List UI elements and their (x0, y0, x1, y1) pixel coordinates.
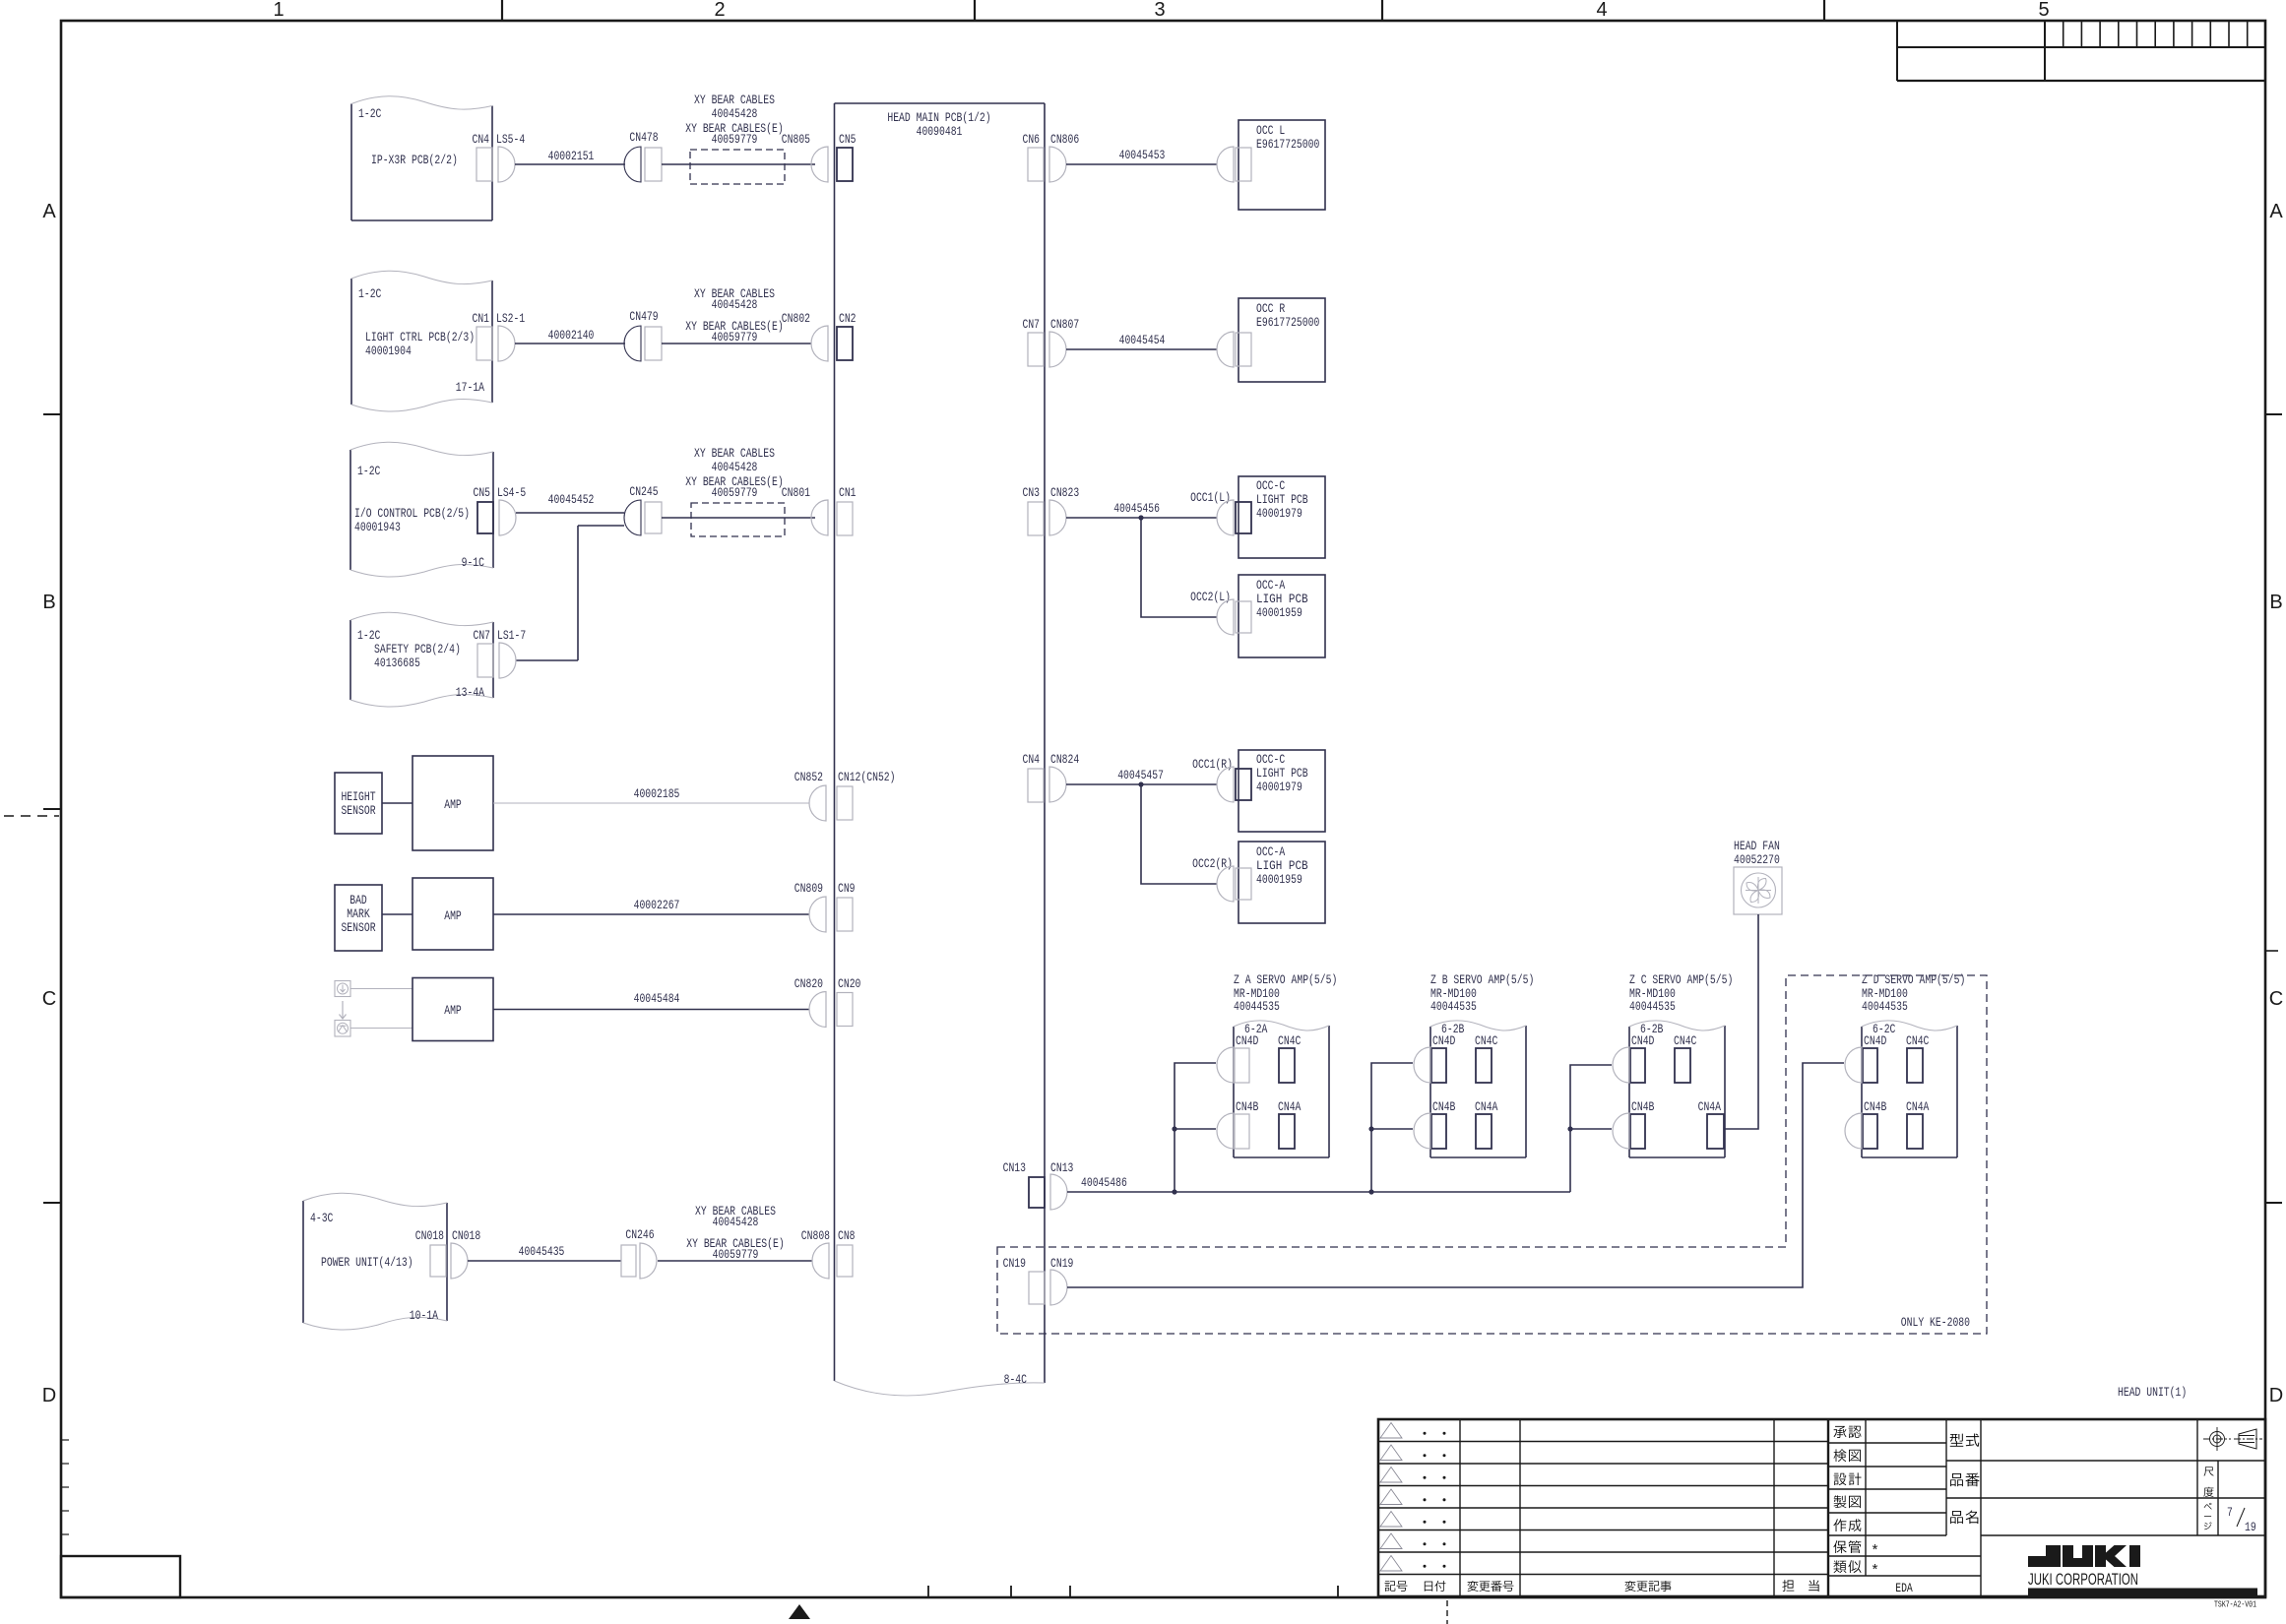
connector CN805 (782, 132, 828, 182)
dashed region ONLY KE-2080 (997, 975, 1987, 1334)
wire 40045452 (516, 492, 624, 513)
svg-text:E9617725000: E9617725000 (1256, 137, 1319, 152)
svg-text:CN807: CN807 (1050, 317, 1079, 332)
connector LS1-7 (497, 628, 526, 678)
svg-text:CN802: CN802 (782, 311, 810, 326)
svg-text:40001904: 40001904 (365, 344, 412, 358)
OCC2(L) connector (1190, 590, 1234, 635)
svg-text:40002151: 40002151 (548, 149, 595, 163)
wire HEAD FAN to Z C CN4A (1724, 914, 1758, 1129)
connector CN807 (1049, 317, 1079, 367)
svg-text:JUKI CORPORATION: JUKI CORPORATION (2028, 1571, 2138, 1589)
svg-text:CN824: CN824 (1050, 752, 1079, 767)
svg-text:CN4C: CN4C (1906, 1033, 1930, 1048)
wire to CN805 (662, 163, 815, 165)
svg-text:4: 4 (1596, 0, 1607, 21)
HEAD MAIN PCB(1/2) block (835, 103, 1046, 1396)
row divider ticks on left border (43, 414, 61, 1203)
cable XY BEAR CABLES 40045428 / (E) 40059779 labels row1 (685, 93, 783, 147)
JUKI logo (2028, 1545, 2257, 1598)
svg-text:40045453: 40045453 (1119, 148, 1166, 162)
wire 40045454 (1066, 333, 1217, 349)
svg-text:5: 5 (2038, 0, 2049, 21)
svg-text:1-2C: 1-2C (358, 286, 382, 301)
svg-text:40045456: 40045456 (1113, 501, 1160, 516)
revision header row kanji (1385, 1580, 1819, 1592)
svg-text:40001979: 40001979 (1256, 780, 1302, 794)
wire 40002267 (493, 898, 809, 914)
connector CN246 (621, 1227, 657, 1279)
svg-text:CN13: CN13 (1003, 1160, 1026, 1175)
svg-text:40059779: 40059779 (713, 1247, 759, 1262)
connector CN852 (794, 770, 826, 821)
stub to Z C CN4B (1570, 1128, 1612, 1130)
svg-text:2: 2 (714, 0, 725, 21)
svg-text:LS5-4: LS5-4 (496, 132, 525, 147)
connector CN802 (782, 311, 828, 361)
connector CN1 on LIGHT CTRL (473, 311, 493, 360)
svg-text:CN4B: CN4B (1864, 1099, 1887, 1114)
connector CN809 (794, 881, 826, 932)
svg-text:CN9: CN9 (838, 881, 856, 896)
connector CN018 plug (451, 1228, 480, 1279)
svg-text:CN4B: CN4B (1432, 1099, 1456, 1114)
svg-text:40002140: 40002140 (548, 328, 595, 343)
connector LS2-1 (496, 311, 525, 361)
svg-text:Z C SERVO AMP(5/5): Z C SERVO AMP(5/5) (1629, 972, 1733, 987)
connector CN4D on Z A (1235, 1033, 1259, 1083)
BAD MARK SENSOR box (335, 885, 382, 951)
svg-text:CN4A: CN4A (1475, 1099, 1498, 1114)
connector CN4B on Z B (1431, 1099, 1456, 1149)
svg-text:OCC R: OCC R (1256, 301, 1285, 316)
connector CN823 (1049, 485, 1079, 535)
svg-text:CN809: CN809 (794, 881, 823, 896)
svg-text:40044535: 40044535 (1430, 999, 1477, 1014)
wire 40045484 (493, 991, 809, 1010)
connector CN19 plug (1050, 1256, 1073, 1305)
svg-text:LS1-7: LS1-7 (497, 628, 526, 643)
svg-text:OCC-C: OCC-C (1256, 752, 1285, 767)
OCC R block E9617725000 (1236, 298, 1325, 382)
bottom border ticks (928, 1586, 1338, 1597)
connector CN7 on HEAD MAIN PCB (1023, 317, 1045, 366)
svg-text:1-2C: 1-2C (358, 106, 382, 121)
svg-text:D: D (42, 1385, 56, 1406)
svg-text:CN4A: CN4A (1698, 1099, 1722, 1114)
centre fold mark right (2266, 950, 2286, 952)
wire height sensor to amp (382, 802, 413, 804)
svg-text:CN4C: CN4C (1278, 1033, 1302, 1048)
svg-text:CN6: CN6 (1023, 132, 1041, 147)
Z C SERVO AMP(5/5) block (1629, 972, 1733, 1157)
Z D SERVO AMP(5/5) block (1862, 972, 1965, 1157)
AMP box 3 (413, 978, 493, 1041)
connector CN19 on HEAD MAIN PCB (1003, 1256, 1045, 1304)
HEIGHT SENSOR box (335, 773, 382, 834)
wire 40002151 (515, 149, 625, 164)
part info labels kanji 型式/品番/品名 (1950, 1433, 1980, 1524)
svg-text:CN1: CN1 (473, 311, 490, 326)
connector CN4C on Z C (1674, 1033, 1697, 1083)
svg-text:40045454: 40045454 (1119, 333, 1166, 347)
svg-text:40044535: 40044535 (1629, 999, 1676, 1014)
bottom-left small box (61, 1556, 180, 1597)
junction node 40045457 (1138, 781, 1143, 786)
svg-text:4-3C: 4-3C (310, 1211, 334, 1225)
connector CN4C on Z B (1475, 1033, 1498, 1083)
svg-text:I/O CONTROL PCB(2/5): I/O CONTROL PCB(2/5) (354, 506, 470, 521)
svg-text:CN4C: CN4C (1674, 1033, 1697, 1048)
svg-text:C: C (2269, 988, 2283, 1010)
wire branch from safety riser (578, 525, 624, 527)
svg-text:CN3: CN3 (1023, 485, 1041, 500)
connector CN5 on HEAD MAIN PCB (837, 132, 857, 181)
svg-text:LIGHT PCB: LIGHT PCB (1256, 766, 1308, 781)
page cell ページ 7/19 (2204, 1503, 2256, 1534)
connector CN245 (624, 484, 662, 535)
dashed mark below title block (1446, 1600, 1448, 1624)
left border scale ticks (61, 1440, 69, 1534)
svg-text:AMP: AMP (444, 797, 462, 812)
svg-text:CN5: CN5 (474, 485, 491, 500)
connector CN4D on Z D (1863, 1033, 1887, 1083)
svg-text:40045428: 40045428 (712, 460, 758, 474)
svg-text:CN4: CN4 (473, 132, 490, 147)
svg-text:*: * (1871, 1563, 1879, 1580)
svg-text:40090481: 40090481 (917, 124, 963, 139)
svg-text:CN4B: CN4B (1631, 1099, 1655, 1114)
svg-text:40045484: 40045484 (634, 991, 680, 1006)
svg-text:SENSOR: SENSOR (341, 803, 375, 818)
row letters A-D left (42, 201, 57, 1406)
connector CN20 on HEAD MAIN PCB (837, 976, 860, 1027)
top ruler column ticks (502, 0, 1824, 21)
wire CN19 to Z D servo amp (1067, 1063, 1844, 1287)
svg-text:40001959: 40001959 (1256, 872, 1302, 887)
svg-text:C: C (42, 988, 56, 1010)
connector CN479 (624, 309, 662, 361)
svg-text:CN2: CN2 (839, 311, 857, 326)
vacuum sensor symbol 2 (335, 1021, 350, 1037)
svg-text:OCC-A: OCC-A (1256, 578, 1285, 593)
svg-text:OCC-C: OCC-C (1256, 478, 1285, 493)
svg-text:LIGH PCB: LIGH PCB (1256, 858, 1308, 873)
OCC-A LIGH PCB 40001959 block (R) (1236, 842, 1325, 923)
connector CN4A on Z B (1475, 1099, 1498, 1149)
connector CN4D on Z C (1630, 1033, 1655, 1083)
CN4B plug on Z C (1613, 1113, 1629, 1149)
connector CN4B on Z A (1235, 1099, 1259, 1149)
svg-text:EDA: EDA (1895, 1581, 1913, 1595)
svg-text:Z D SERVO AMP(5/5): Z D SERVO AMP(5/5) (1862, 972, 1965, 987)
connector CN4D on Z B (1431, 1033, 1456, 1083)
OCC1(R) connector (1192, 757, 1234, 802)
OCC-C LIGHT PCB 40001979 block (R) (1236, 750, 1325, 832)
svg-text:*: * (1871, 1543, 1879, 1560)
riser Z C (1570, 1065, 1612, 1192)
HEAD FAN 40052270 (1734, 839, 1782, 914)
connector CN801 (782, 485, 828, 535)
svg-text:SAFETY PCB(2/4): SAFETY PCB(2/4) (374, 642, 461, 656)
svg-text:CN5: CN5 (839, 132, 857, 147)
svg-text:XY BEAR CABLES: XY BEAR CABLES (694, 93, 775, 107)
Z A SERVO AMP(5/5) block (1234, 972, 1337, 1157)
svg-text:CN7: CN7 (474, 628, 491, 643)
top-right reference table (1897, 21, 2265, 81)
svg-text:LS4-5: LS4-5 (497, 485, 526, 500)
row divider ticks on right border (2265, 414, 2282, 1203)
svg-text:CN852: CN852 (794, 770, 823, 784)
svg-text:40059779: 40059779 (712, 330, 758, 344)
svg-text:AMP: AMP (444, 1003, 462, 1018)
wire to CN808 (658, 1260, 812, 1262)
scale cell 尺度 (2203, 1467, 2213, 1496)
bottom centre triangle marker (789, 1604, 810, 1619)
cable labels row CN808 (686, 1204, 784, 1262)
svg-text:ONLY KE-2080: ONLY KE-2080 (1901, 1315, 1970, 1330)
connector CN4C on Z A (1278, 1033, 1302, 1083)
svg-text:E9617725000: E9617725000 (1256, 315, 1319, 330)
junction node 40045456 (1138, 515, 1143, 520)
svg-text:CN4D: CN4D (1432, 1033, 1456, 1048)
svg-text:40045428: 40045428 (712, 297, 758, 312)
CN4D plug on Z C (1613, 1047, 1629, 1083)
riser Z B (1371, 1063, 1413, 1192)
svg-text:LIGH PCB: LIGH PCB (1256, 592, 1308, 606)
svg-text:7: 7 (2227, 1505, 2233, 1520)
wire 40045486 bus (1067, 1175, 1570, 1192)
connector CN808 (801, 1228, 830, 1279)
svg-text:HEAD FAN: HEAD FAN (1734, 839, 1780, 853)
svg-text:CN1: CN1 (839, 485, 857, 500)
connector CN2 on HEAD MAIN PCB (837, 311, 857, 360)
wire bad mark sensor to amp (382, 913, 413, 915)
svg-text:B: B (42, 592, 55, 613)
connector CN820 (794, 976, 826, 1028)
svg-text:CN4C: CN4C (1475, 1033, 1498, 1048)
svg-text:40002185: 40002185 (634, 786, 680, 801)
wire to CN802 (662, 343, 811, 344)
CN4D plug on Z B (1414, 1047, 1430, 1083)
svg-text:CN806: CN806 (1050, 132, 1079, 147)
svg-text:3: 3 (1154, 0, 1165, 21)
CN4D plug on Z A (1217, 1047, 1234, 1083)
connector CN4A on Z A (1278, 1099, 1302, 1149)
cable labels row2 (685, 286, 783, 344)
stub to Z B CN4B (1371, 1128, 1413, 1130)
connector CN478 (624, 130, 662, 182)
connector CN806 (1049, 132, 1079, 182)
svg-text:CN12(CN52): CN12(CN52) (838, 770, 896, 784)
svg-text:40045486: 40045486 (1081, 1175, 1127, 1190)
connector LS4-5 (497, 485, 526, 535)
svg-text:CN823: CN823 (1050, 485, 1079, 500)
riser Z A (1175, 1063, 1216, 1192)
svg-text:1-2C: 1-2C (357, 628, 381, 643)
connector CN824 (1049, 752, 1079, 802)
connector CN4B on Z D (1863, 1099, 1887, 1149)
svg-text:10-1A: 10-1A (410, 1308, 438, 1323)
CN4B plug on Z A (1217, 1113, 1234, 1149)
svg-text:CN13: CN13 (1050, 1160, 1073, 1175)
wire 40045456 (1066, 501, 1217, 518)
svg-text:Z A SERVO AMP(5/5): Z A SERVO AMP(5/5) (1234, 972, 1337, 987)
connector LS5-4 (496, 132, 525, 182)
vacuum sensor symbol 1 (335, 981, 350, 997)
svg-text:13-4A: 13-4A (456, 685, 484, 700)
svg-text:40044535: 40044535 (1234, 999, 1280, 1014)
svg-text:HEIGHT: HEIGHT (341, 789, 375, 804)
svg-text:OCC2(R): OCC2(R) (1192, 856, 1233, 871)
OCC1(L) connector (1190, 490, 1234, 535)
svg-text:CN808: CN808 (801, 1228, 830, 1243)
svg-text:CN4D: CN4D (1631, 1033, 1655, 1048)
svg-text:CN4B: CN4B (1236, 1099, 1259, 1114)
svg-text:CN805: CN805 (782, 132, 810, 147)
svg-text:A: A (42, 201, 56, 222)
AMP box 1 (413, 756, 493, 850)
svg-text:HEAD UNIT(1): HEAD UNIT(1) (2118, 1385, 2187, 1400)
svg-text:CN820: CN820 (794, 976, 823, 991)
svg-text:40059779: 40059779 (712, 485, 758, 500)
svg-text:IP-X3R PCB(2/2): IP-X3R PCB(2/2) (371, 153, 458, 167)
revision rows: triangle symbols and date dots (1380, 1423, 1446, 1572)
svg-text:SENSOR: SENSOR (341, 920, 375, 935)
POWER UNIT(4/13) block (303, 1193, 447, 1330)
svg-text:CN246: CN246 (625, 1227, 654, 1242)
dashed cable box row3 (691, 503, 785, 536)
svg-text:40059779: 40059779 (712, 132, 758, 147)
connector CN3 on HEAD MAIN PCB (1023, 485, 1045, 535)
svg-text:CN19: CN19 (1050, 1256, 1073, 1271)
svg-text:CN479: CN479 (629, 309, 658, 324)
svg-text:OCC L: OCC L (1256, 123, 1285, 138)
OCC L block E9617725000 (1236, 120, 1325, 210)
svg-text:CN4A: CN4A (1278, 1099, 1302, 1114)
light wires from sensor symbols to AMP (350, 988, 413, 990)
top ruler column numbers 1-5 (273, 0, 2049, 21)
part info grid (1946, 1419, 2265, 1535)
svg-text:40045435: 40045435 (519, 1244, 565, 1259)
svg-text:CN801: CN801 (782, 485, 810, 500)
branch wire to OCC2(L) (1141, 518, 1217, 617)
CN4D plug on Z D (1845, 1047, 1862, 1083)
connector CN4A on Z C (1698, 1099, 1724, 1149)
svg-text:XY BEAR CABLES: XY BEAR CABLES (694, 446, 775, 461)
I/O CONTROL PCB(2/5) block (350, 442, 493, 577)
svg-text:1-2C: 1-2C (357, 464, 381, 478)
svg-text:HEAD MAIN PCB(1/2): HEAD MAIN PCB(1/2) (887, 110, 990, 125)
junction dots on bus (1172, 1189, 1176, 1194)
centre fold mark left (4, 815, 59, 817)
connector CN4C on Z D (1906, 1033, 1930, 1083)
svg-text:OCC-A: OCC-A (1256, 844, 1285, 859)
riser wire to SAFETY PCB (577, 526, 579, 660)
svg-text:9-1C: 9-1C (462, 555, 485, 570)
svg-text:40136685: 40136685 (374, 656, 420, 670)
svg-text:CN4D: CN4D (1864, 1033, 1887, 1048)
svg-text:40052270: 40052270 (1734, 852, 1780, 867)
LIGHT CTRL PCB(2/3) block (351, 271, 492, 411)
svg-text:17-1A: 17-1A (456, 380, 484, 395)
connector CN13 plug (1050, 1160, 1073, 1210)
branch wire to OCC2(R) (1141, 784, 1217, 884)
svg-text:MARK: MARK (347, 906, 370, 921)
connector CN4 on HEAD MAIN PCB (1023, 752, 1045, 802)
title block outer frame (1378, 1419, 2265, 1596)
wire 40045453 (1066, 148, 1217, 164)
svg-text:BAD: BAD (349, 893, 367, 907)
dashed cable box row1 (690, 150, 785, 184)
SAFETY PCB(2/4) block (350, 612, 493, 707)
svg-text:OCC1(R): OCC1(R) (1192, 757, 1233, 772)
stub to Z A CN4B (1175, 1128, 1216, 1130)
svg-text:AMP: AMP (444, 908, 462, 923)
connector CN13 on HEAD MAIN PCB (1003, 1160, 1045, 1208)
svg-text:CN4A: CN4A (1906, 1099, 1930, 1114)
svg-text:CN4: CN4 (1023, 752, 1041, 767)
wire from LS1-7 (516, 659, 578, 661)
svg-text:LS2-1: LS2-1 (496, 311, 525, 326)
cable labels row3 (685, 446, 783, 500)
svg-text:CN245: CN245 (629, 484, 658, 499)
AMP box 2 (413, 878, 493, 950)
svg-text:A: A (2269, 201, 2283, 222)
svg-text:CN478: CN478 (629, 130, 658, 145)
svg-text:D: D (2269, 1385, 2283, 1406)
svg-text:40045428: 40045428 (712, 106, 758, 121)
svg-text:40001943: 40001943 (354, 520, 401, 534)
IP-X3R PCB(2/2) block (351, 96, 492, 220)
CN4B plug on Z B (1414, 1113, 1430, 1149)
svg-text:CN4D: CN4D (1236, 1033, 1259, 1048)
svg-text:TSK7-A2-V01: TSK7-A2-V01 (2214, 1600, 2256, 1610)
OCC2(R) connector (1192, 856, 1234, 902)
svg-text:CN018: CN018 (415, 1228, 444, 1243)
svg-text:CN8: CN8 (838, 1228, 856, 1243)
connector CN8 on HEAD MAIN PCB (837, 1228, 856, 1277)
OCC-C LIGHT PCB 40001979 block (L) (1236, 476, 1325, 558)
svg-text:CN018: CN018 (452, 1228, 480, 1243)
svg-text:LIGHT PCB: LIGHT PCB (1256, 492, 1308, 507)
wire to CN801 (662, 517, 815, 519)
svg-text:POWER UNIT(4/13): POWER UNIT(4/13) (321, 1255, 413, 1270)
wire 40045435 (468, 1244, 621, 1261)
svg-text:CN20: CN20 (838, 976, 860, 991)
first-angle projection symbol (2203, 1427, 2262, 1451)
wire 40045457 (1066, 768, 1217, 784)
connector CN1 on HEAD MAIN PCB (837, 485, 857, 535)
row letters A-D right (2269, 201, 2284, 1406)
svg-text:8-4C: 8-4C (1004, 1372, 1028, 1387)
connector CN4A on Z D (1906, 1099, 1930, 1149)
down arrow between sensor symbols (340, 1001, 347, 1019)
connector CN7 on SAFETY PCB (474, 628, 494, 677)
svg-text:B: B (2269, 592, 2282, 613)
wire 40002140 (515, 328, 625, 344)
connector CN4B on Z C (1630, 1099, 1655, 1149)
connector CN6 on HEAD MAIN PCB (1023, 132, 1045, 181)
svg-text:LIGHT CTRL PCB(2/3): LIGHT CTRL PCB(2/3) (365, 330, 475, 344)
wire 40002185 (light) (493, 786, 809, 803)
Z B SERVO AMP(5/5) block (1430, 972, 1534, 1157)
CN4B plug on Z D (1845, 1113, 1862, 1149)
svg-text:1: 1 (273, 0, 284, 21)
connector CN5 on I/O CONTROL (474, 485, 494, 533)
connector CN9 on HEAD MAIN PCB (837, 881, 856, 931)
svg-text:40001979: 40001979 (1256, 506, 1302, 521)
